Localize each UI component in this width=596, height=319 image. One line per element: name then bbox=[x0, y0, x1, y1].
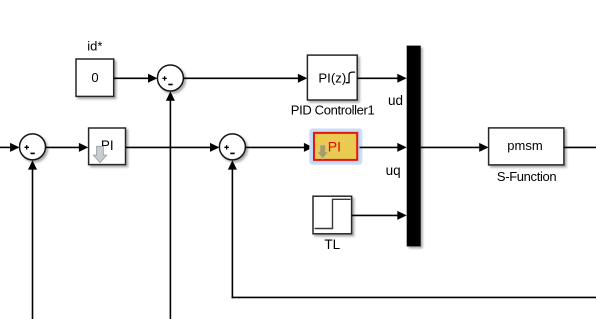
svg-text:S-Function: S-Function bbox=[497, 169, 556, 184]
wire: TL output to mux input 3 bbox=[352, 211, 407, 220]
svg-text:uq: uq bbox=[386, 163, 401, 178]
wire: pmsm output to right edge bbox=[564, 146, 596, 148]
svg-text:TL: TL bbox=[324, 237, 340, 252]
wire: feedback from image bottom edge up into S1 (crosses row 2 wire) bbox=[166, 91, 175, 319]
wire: left input into sum junction S3 bbox=[0, 143, 20, 152]
wire: feedback from image bottom edge up into S3 bbox=[28, 160, 37, 319]
svg-text:pmsm: pmsm bbox=[507, 138, 542, 153]
library link badge (olive down arrow) bbox=[317, 145, 329, 159]
wire: mux output to pmsm S-Function bbox=[421, 143, 489, 152]
library link badge (gray down arrow) bbox=[93, 146, 107, 162]
sum junction S2 bbox=[219, 134, 245, 160]
block: TL step source bbox=[313, 196, 352, 234]
svg-text:0: 0 bbox=[91, 70, 98, 85]
svg-text:PI(z): PI(z) bbox=[318, 71, 346, 86]
block: pmsm S-Function bbox=[489, 128, 564, 165]
wire: S2 output to highlighted PI block bbox=[245, 143, 313, 152]
svg-text:ud: ud bbox=[388, 93, 403, 108]
wire: S1 output to PID Controller1 bbox=[183, 74, 307, 83]
sum junction S3 bbox=[20, 134, 46, 160]
svg-text:id*: id* bbox=[87, 39, 102, 54]
wire: highlighted PI output to mux input 2 bbox=[360, 143, 407, 152]
wire: S3 output to PI block bbox=[46, 143, 89, 152]
wire: feedback loop from right edge along y=297 up into S2 bbox=[228, 160, 596, 298]
svg-text:PID Controller1: PID Controller1 bbox=[291, 103, 375, 118]
block: constant id* value 0 bbox=[76, 59, 114, 96]
mux bar bbox=[407, 46, 421, 247]
wire: PID Controller1 output to mux input 1 bbox=[357, 74, 407, 83]
sum junction S1 bbox=[157, 65, 183, 91]
block: PI current regulator (highlighted: blue halo, yellow fill, red border) bbox=[309, 129, 362, 165]
svg-text:PI: PI bbox=[328, 139, 341, 155]
wire: PI output to sum junction S2 (crosses the S1 feedback line) bbox=[126, 143, 220, 152]
block: PI speed regulator (library-linked) bbox=[89, 128, 126, 165]
block: PID Controller1 (PI(z) with integrator glyph) bbox=[307, 55, 357, 100]
wire: constant to sum junction S1 bbox=[114, 74, 158, 83]
